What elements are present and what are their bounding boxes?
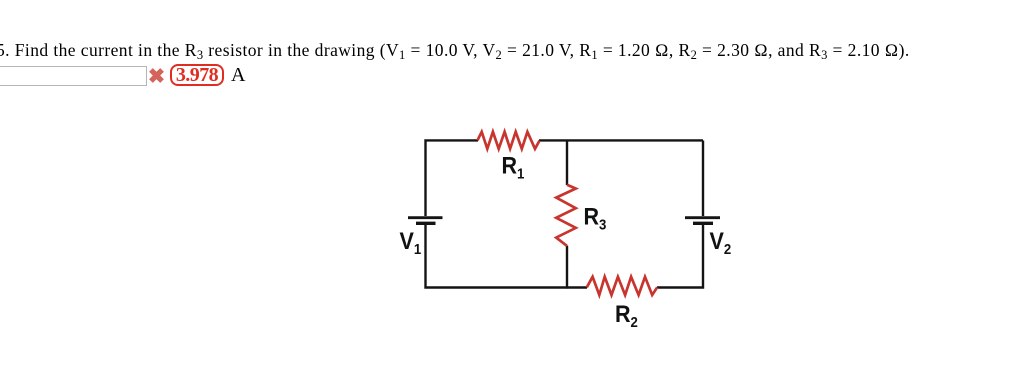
resistor R3 zigzag — [556, 185, 576, 246]
wire middle vertical lower (R3 to bottom node) — [566, 246, 568, 289]
answer key value box — [170, 64, 224, 86]
resistor R1 zigzag — [478, 132, 540, 149]
wire top-right (R1 to junction to top-right corner) — [539, 139, 703, 141]
unit A — [231, 64, 245, 87]
wire bottom-right (R2 to bottom-right corner) — [657, 224, 703, 288]
battery V1 short plate — [416, 222, 436, 225]
wire top-left (top-left corner to R1) — [426, 140, 479, 216]
problem statement — [0, 40, 910, 61]
svg-text:V2: V2 — [710, 227, 732, 257]
svg-text:V1: V1 — [400, 227, 422, 257]
svg-text:R2: R2 — [615, 300, 638, 330]
wire right-top (top-right corner down to V2) — [702, 141, 704, 217]
wire bottom-left (bottom-left corner to R2) — [426, 224, 588, 288]
battery V2 short plate — [693, 222, 713, 225]
battery V1 long plate — [408, 216, 443, 219]
svg-text:R3: R3 — [584, 202, 607, 232]
svg-text:R1: R1 — [502, 151, 525, 181]
battery V2 long plate — [685, 216, 720, 219]
resistor R2 zigzag — [587, 277, 657, 295]
incorrect red X icon — [149, 68, 164, 83]
answer input field — [0, 66, 147, 86]
wire middle vertical upper (junction to R3) — [566, 140, 568, 185]
